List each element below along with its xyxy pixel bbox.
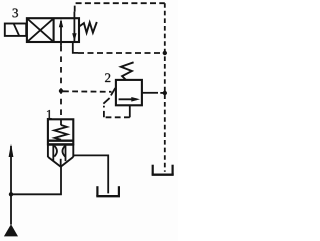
node: junction dot on pilot line (59, 89, 63, 93)
relief valve U2 body (116, 80, 142, 105)
label 3 (valve designator) (13, 9, 18, 18)
wire: right vertical dashed rail to tank (164, 3, 166, 172)
label 1 (cartridge valve designator) (47, 110, 52, 119)
wire: valve V3 bottom-right port to right rail (dashed) (73, 42, 165, 53)
cartridge valve 1: control cover box (48, 119, 73, 144)
cartridge valve 1: inner sleeve lines (53, 146, 65, 167)
valve V3 right position: upward flow arrow (59, 19, 63, 42)
label 2 (relief valve designator) (105, 73, 110, 82)
cartridge valve 1: pilot stub into cover (60, 119, 62, 125)
wire: dashed drain line from valve V3 top port over to right rail (75, 3, 165, 11)
cartridge valve 1: poppet seat arcs (54, 146, 65, 157)
valve V3 body (2-position directional valve) (27, 18, 79, 42)
relief valve U2 spring (zigzag on top) (121, 62, 134, 80)
node: junction dot on pump line (9, 192, 13, 196)
tank T2 (right reservoir) (152, 165, 174, 175)
node: junction dot on right rail at valve 2 outlet (163, 91, 167, 95)
tank T1 (middle reservoir) (96, 186, 120, 196)
pressure source solid triangle (4, 224, 18, 236)
wire: cartridge valve 1 outlet to middle tank (73, 155, 108, 193)
cartridge valve 1: spring (54, 125, 67, 140)
wire: dashed pilot loop under valve 2 (104, 106, 130, 118)
relief valve U2 internal flow arrow (119, 97, 140, 102)
wire: valve 2 bottom port stub (129, 105, 131, 117)
wire: cartridge valve 1 bottom port down and left to pump line (11, 167, 61, 195)
solenoid actuator of valve 3 (5, 24, 26, 36)
cartridge valve 1: poppet body funnel (48, 144, 73, 166)
cartridge valve 1: seat band lines (48, 141, 73, 145)
wire: valve V3 bottom-left port dashed pilot line down to valve 1 (60, 42, 62, 119)
node: junction dot on right rail at drain line (163, 51, 167, 55)
valve V3 return spring (79, 22, 97, 33)
wire: valve 2 outlet to right rail (142, 92, 163, 94)
wire: dashed pilot branch to relief valve 2 (63, 90, 112, 93)
valve V3 left position: blocked ports X (27, 19, 53, 42)
valve V3 right position: downward flow arrow (72, 12, 76, 42)
pump supply line with flow arrow (9, 144, 14, 225)
wire: diagonal dashed pilot entry into valve 2 left side (103, 88, 115, 104)
